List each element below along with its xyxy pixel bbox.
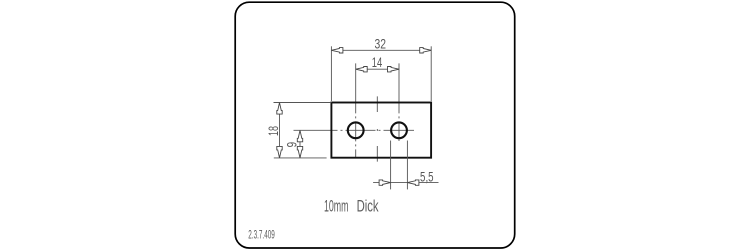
- hole left: [348, 122, 364, 138]
- dim line 18: [279, 103, 281, 158]
- card frame: [235, 2, 515, 248]
- dim line 5.5: [373, 182, 438, 184]
- centerline vertical left hole / ext line 14 left: [355, 63, 357, 157]
- arrow 32 right: [420, 48, 432, 53]
- arrow 32 left: [331, 48, 343, 53]
- centerline vertical plate middle (dash-dot): [376, 96, 378, 162]
- ext line 32 left: [330, 46, 332, 101]
- ext line 32 right: [430, 46, 432, 101]
- ext line 18 bottom: [274, 157, 327, 159]
- arrow 9 down: [297, 146, 302, 158]
- arrow 18 up: [277, 103, 282, 115]
- arrow 5.5 pointing left at right tangent: [407, 180, 419, 185]
- centerline horizontal through holes: [294, 129, 415, 131]
- arrow 14 right: [388, 67, 400, 72]
- dim line 32: [331, 49, 431, 51]
- centerline vertical right hole / ext line 14 right: [398, 63, 400, 141]
- arrow 18 down: [277, 146, 282, 158]
- plate outline: [331, 103, 431, 158]
- svg-text:14: 14: [372, 54, 383, 70]
- svg-text:2.3.7.409: 2.3.7.409: [248, 230, 274, 242]
- arrow 9 up: [297, 130, 302, 142]
- dim line 9: [299, 130, 301, 158]
- ext line 18 top: [274, 102, 332, 104]
- svg-text:18: 18: [265, 126, 281, 136]
- dim line 14: [356, 68, 399, 70]
- arrow 5.5 pointing right at left tangent: [379, 180, 391, 185]
- svg-text:32: 32: [374, 36, 386, 52]
- arrow 14 left: [356, 67, 368, 72]
- hole right: [391, 122, 407, 138]
- svg-text:10mm: 10mm: [324, 198, 349, 216]
- svg-text:9: 9: [284, 142, 300, 148]
- ext line 5.5 left tangent: [390, 141, 392, 190]
- svg-text:5,5: 5,5: [420, 168, 434, 184]
- svg-text:Dick: Dick: [357, 198, 380, 216]
- ext line 5.5 right tangent: [406, 141, 408, 190]
